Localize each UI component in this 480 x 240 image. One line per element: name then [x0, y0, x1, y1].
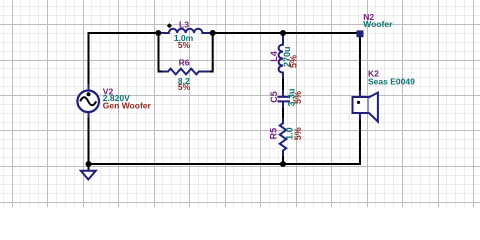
voltage source V2 — [77, 91, 99, 113]
svg-text:Woofer: Woofer — [363, 19, 393, 29]
svg-text:Seas E0049: Seas E0049 — [368, 77, 415, 87]
svg-text:5%: 5% — [289, 55, 299, 68]
svg-text:5%: 5% — [178, 40, 191, 50]
svg-text:5%: 5% — [178, 82, 191, 92]
V2 lead stubs — [88, 84, 90, 119]
wire top-right: L3 right node to node N2 — [213, 32, 360, 34]
wire bottom rail and up to speaker — [89, 113, 361, 164]
speaker K2 — [353, 93, 378, 122]
inductor L3 — [159, 29, 213, 33]
svg-text:5%: 5% — [293, 91, 303, 104]
wire: V2 bottom to ground junction — [88, 118, 90, 164]
svg-text:C5: C5 — [269, 91, 279, 103]
speaker lead stubs — [359, 90, 361, 120]
wire stubs R6 — [159, 33, 213, 72]
wire: node N2 down to speaker — [359, 37, 361, 91]
inductor L4 — [279, 34, 283, 80]
svg-text:Gen Woofer: Gen Woofer — [103, 101, 152, 111]
svg-text:L4: L4 — [269, 51, 279, 62]
resistor R6 — [162, 69, 209, 75]
svg-text:R5: R5 — [268, 128, 278, 140]
L3 polarity diamond — [167, 23, 172, 28]
svg-text:R6: R6 — [179, 58, 190, 68]
ground — [88, 164, 90, 171]
resistor R5 — [280, 118, 286, 156]
junction L3/R6 left — [155, 30, 161, 36]
svg-text:L3: L3 — [179, 20, 189, 30]
junction L4 top — [280, 30, 286, 36]
svg-text:5%: 5% — [293, 127, 303, 140]
capacitor C5 — [277, 90, 290, 108]
wire top-left: V2 top to L3 left node — [89, 33, 159, 85]
wire middle branch segments — [282, 77, 284, 164]
node N2 square — [357, 30, 364, 37]
junction R5 bottom — [280, 161, 286, 167]
junction L3/R6 right — [210, 30, 216, 36]
junction ground node — [86, 161, 92, 167]
